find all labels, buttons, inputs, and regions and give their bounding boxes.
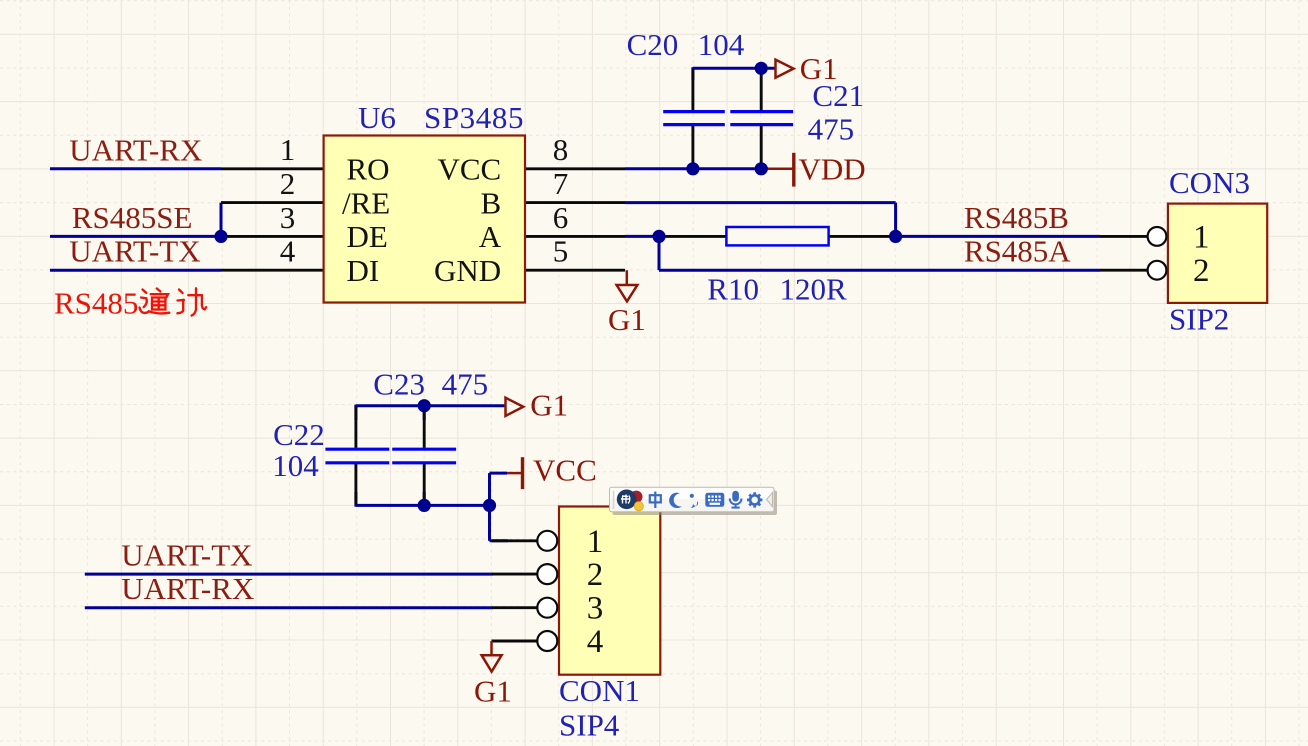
svg-text:G1: G1 [474, 674, 512, 709]
svg-text:GND: GND [434, 253, 501, 288]
svg-text:1: 1 [587, 524, 604, 560]
svg-text:3: 3 [587, 591, 604, 627]
svg-text:C22: C22 [273, 417, 325, 452]
svg-text:U6: U6 [358, 100, 396, 135]
svg-text:C20: C20 [627, 27, 679, 62]
svg-text:VCC: VCC [533, 453, 597, 488]
svg-text:4: 4 [587, 624, 604, 660]
svg-text:G1: G1 [530, 388, 568, 423]
svg-text:UART-TX: UART-TX [69, 233, 200, 268]
svg-text:7: 7 [553, 166, 569, 201]
svg-text:RO: RO [347, 152, 390, 187]
svg-text:G1: G1 [608, 302, 646, 337]
svg-text:VDD: VDD [799, 151, 866, 186]
svg-text:/RE: /RE [342, 185, 390, 220]
svg-text:1: 1 [1193, 219, 1210, 255]
svg-text:1: 1 [280, 132, 296, 167]
svg-text:SP3485: SP3485 [424, 100, 524, 135]
svg-text:UART-RX: UART-RX [69, 132, 202, 167]
svg-text:SIP4: SIP4 [559, 708, 620, 743]
svg-text:4: 4 [280, 234, 296, 269]
svg-text:G1: G1 [800, 51, 838, 86]
svg-text:RS485: RS485 [54, 286, 138, 321]
svg-text:CON1: CON1 [559, 673, 640, 708]
svg-text:475: 475 [442, 367, 489, 402]
svg-text:104: 104 [272, 448, 319, 483]
svg-text:CON3: CON3 [1169, 165, 1250, 200]
svg-text:3: 3 [280, 200, 296, 235]
svg-text:104: 104 [698, 27, 745, 62]
svg-text:120R: 120R [780, 272, 848, 307]
svg-text:6: 6 [553, 200, 569, 235]
svg-text:VCC: VCC [437, 152, 501, 187]
svg-text:DI: DI [347, 253, 380, 288]
svg-text:C23: C23 [373, 367, 425, 402]
svg-text:475: 475 [808, 111, 855, 146]
svg-text:2: 2 [1193, 253, 1210, 289]
svg-text:2: 2 [587, 557, 604, 593]
svg-text:8: 8 [553, 132, 569, 167]
svg-text:RS485A: RS485A [964, 233, 1071, 268]
svg-text:UART-RX: UART-RX [121, 571, 254, 606]
svg-text:RS485B: RS485B [964, 200, 1069, 235]
svg-text:DE: DE [347, 219, 388, 254]
svg-text:5: 5 [553, 234, 569, 269]
svg-text:2: 2 [280, 166, 296, 201]
svg-text:SIP2: SIP2 [1169, 301, 1229, 336]
svg-text:A: A [479, 219, 502, 254]
svg-text:B: B [481, 185, 502, 220]
svg-text:UART-TX: UART-TX [121, 538, 252, 573]
svg-text:R10: R10 [707, 272, 759, 307]
svg-text:RS485SE: RS485SE [72, 200, 193, 235]
